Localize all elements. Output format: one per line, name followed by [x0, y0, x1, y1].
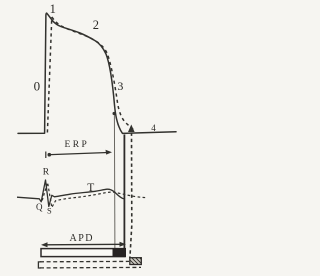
action potential solid curve (control): baseline, phase 0 upstroke, phases 1-3, baseline 4 — [18, 13, 176, 133]
APD double-headed arrow — [44, 243, 123, 246]
svg-text:APD: APD — [70, 233, 95, 244]
svg-text:4: 4 — [151, 123, 156, 133]
drug APD dashed bar: left bracket — [38, 262, 41, 268]
svg-text:ERP: ERP — [65, 140, 90, 150]
svg-text:0: 0 — [34, 79, 41, 94]
junction dot on phase 3 — [113, 112, 116, 115]
drug APD dashed bar: bottom edge — [40, 266, 141, 269]
svg-text:T: T — [87, 182, 94, 194]
svg-text:R: R — [43, 168, 50, 178]
ERP left dot — [48, 153, 52, 157]
vertical line at end of ERP (thin) — [113, 115, 116, 249]
ECG solid trace: baseline, Q, R, S, T — [17, 180, 124, 207]
action potential dashed curve (drug): slowed upstroke, prolonged plateau and phase 3 — [47, 17, 51, 133]
drug APD dashed bar: top edge — [40, 260, 129, 262]
svg-text:2: 2 — [93, 18, 99, 32]
black end of control APD bar — [113, 248, 127, 257]
svg-text:1: 1 — [50, 2, 56, 16]
svg-text:S: S — [47, 206, 52, 216]
ECG dashed trace: widened QRS, prolonged QT — [42, 183, 146, 208]
svg-text:Q: Q — [36, 202, 43, 212]
ERP left tick — [45, 152, 47, 159]
hatched increment box — [130, 258, 142, 265]
dashed vertical line at end of drug APD with up arrowhead — [128, 125, 135, 133]
vertical line at end of control APD (dark) — [123, 135, 125, 251]
svg-text:3: 3 — [117, 79, 123, 93]
control APD bar (outlined) — [41, 249, 125, 257]
ERP arrow line with right arrowhead — [51, 153, 108, 155]
